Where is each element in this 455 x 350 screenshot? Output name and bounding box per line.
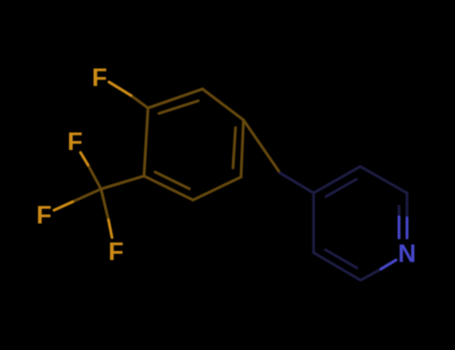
wire V3-V4 (241, 120, 244, 177)
bond C-F3 dark half (101, 189, 109, 220)
bond C6-N dark half (361, 269, 381, 280)
wire V6-V1 (144, 108, 148, 176)
bond C-F4 bright half (54, 202, 73, 210)
wire V5-V6 (144, 176, 193, 200)
svg-text:F: F (92, 64, 107, 92)
bond CH-pyridine (280, 173, 314, 193)
double bond inner C5-C6 (326, 250, 358, 268)
bond C-F2 bright half (81, 153, 89, 166)
double bond inner C3-C4 (326, 179, 357, 196)
pyridine ring (314, 167, 407, 281)
bond C2=N dark upper half (406, 193, 409, 218)
bond C-F3 bright half (109, 220, 113, 238)
svg-text:F: F (67, 128, 82, 156)
bond ring-CH dark (244, 120, 281, 173)
bond C-F1 dark half (131, 96, 148, 109)
double bond inner C2=N bright lower part (398, 217, 401, 238)
double bond inner V3-V4 (233, 128, 236, 168)
wire V2-V3 (203, 89, 244, 120)
wire V1-V2 (148, 89, 203, 108)
svg-text:F: F (36, 202, 51, 230)
bond C6-N bright half (381, 260, 396, 269)
wire C5-C6 (314, 253, 361, 280)
benzene ring C1-C6 (144, 89, 244, 200)
double bond inner V1-V2 (159, 101, 198, 114)
bond C-F1 bright half (109, 82, 131, 96)
svg-text:F: F (108, 238, 123, 266)
wire C4-C5 (312, 193, 315, 253)
double bond inner V5-V6 (155, 172, 189, 189)
bond C2=N bright lower half (406, 218, 409, 238)
bond C-F2 dark half (88, 165, 101, 189)
bond C-F4 dark half (73, 189, 102, 202)
wire C4-C3 (314, 167, 361, 194)
wire V4-V5 (193, 177, 241, 200)
bond CF3C-ring (101, 176, 144, 189)
wire C3-C2 (360, 167, 407, 194)
svg-text:N: N (398, 240, 416, 268)
double bond inner C2=N dark upper part (398, 206, 401, 217)
